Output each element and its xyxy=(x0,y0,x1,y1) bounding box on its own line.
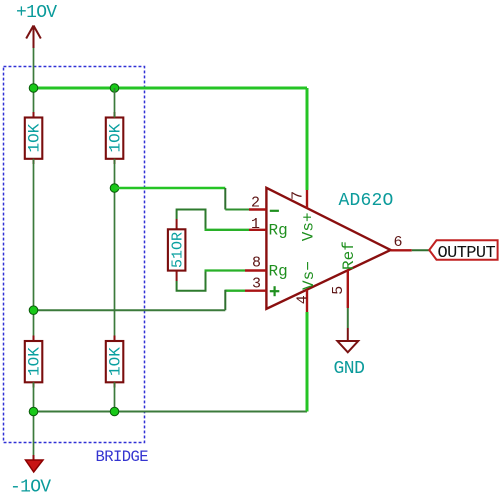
pin 8 stub xyxy=(245,269,266,271)
wire col2 top xyxy=(114,88,116,118)
wire R1 to mid junction xyxy=(33,159,35,341)
svg-text:3: 3 xyxy=(252,276,261,293)
pin 5 stub xyxy=(347,270,349,308)
svg-text:1: 1 xyxy=(251,216,260,233)
svg-text:4: 4 xyxy=(295,295,312,304)
pin 3 stub xyxy=(245,290,266,292)
wire Vs+ vertical xyxy=(306,88,309,190)
svg-text:1OK: 1OK xyxy=(107,123,125,152)
svg-text:51OR: 51OR xyxy=(170,232,187,268)
svg-text:+1OV: +1OV xyxy=(16,3,57,23)
wire pin2 step down xyxy=(224,188,226,210)
pin name minus xyxy=(270,210,279,212)
power flag -10V xyxy=(10,455,51,496)
wire pin6 to output xyxy=(412,249,429,251)
svg-text:8: 8 xyxy=(252,255,261,272)
power flag +10V xyxy=(16,3,57,48)
wire col2 bottom xyxy=(114,382,116,411)
pin 2 stub xyxy=(249,208,266,210)
pin 7 stub xyxy=(306,190,308,209)
svg-text:1OK: 1OK xyxy=(26,347,44,376)
svg-text:Vs−: Vs− xyxy=(300,261,318,290)
pin name plus xyxy=(270,290,280,292)
node junction bottom-left xyxy=(29,407,38,416)
pin 6 stub xyxy=(391,249,412,251)
svg-text:2: 2 xyxy=(251,195,260,212)
wire to pin2 horizontal xyxy=(115,187,226,190)
wire 510R top jog xyxy=(177,210,206,230)
svg-text:OUTPUT: OUTPUT xyxy=(438,244,496,263)
wire pin2 horizontal xyxy=(225,209,249,211)
node junction top-left xyxy=(29,84,38,93)
wire pin5 to GND xyxy=(347,308,349,328)
svg-text:Rg: Rg xyxy=(269,222,288,240)
resistor R2 10K (top-mid) xyxy=(106,112,125,164)
bridge box (dashed) xyxy=(4,67,145,443)
pin 4 stub xyxy=(306,290,308,312)
pin 1 stub xyxy=(249,229,266,231)
svg-text:1OK: 1OK xyxy=(26,123,44,152)
resistor R3 10K (bottom-left) xyxy=(25,336,44,388)
wire col1 bottom xyxy=(33,382,35,455)
node junction bottom-mid xyxy=(110,407,119,416)
svg-text:GND: GND xyxy=(334,359,365,379)
svg-text:6: 6 xyxy=(394,234,403,251)
wire bottom bus xyxy=(34,411,308,413)
svg-text:Rg: Rg xyxy=(269,262,288,280)
resistor R5 510R xyxy=(168,219,187,281)
svg-text:1OK: 1OK xyxy=(107,347,125,376)
resistor R1 10K (top-left) xyxy=(25,112,44,164)
svg-text:5: 5 xyxy=(330,286,347,295)
wire Vs- vertical xyxy=(306,312,309,412)
wire pin3 horizontal xyxy=(225,290,245,292)
ground xyxy=(334,328,365,379)
resistor R4 10K (bottom-mid) xyxy=(106,336,125,388)
svg-text:Vs+: Vs+ xyxy=(300,212,318,241)
svg-text:AD62O: AD62O xyxy=(339,191,394,211)
wire 510R bottom jog xyxy=(177,271,206,291)
wire mid-left bus xyxy=(34,309,226,311)
op-amp U1 AD620 xyxy=(245,188,412,312)
wire top bus xyxy=(34,87,308,90)
node junction top-mid xyxy=(110,84,119,93)
label OUTPUT flag xyxy=(429,240,497,263)
node junction col1 mid xyxy=(29,306,38,315)
wire col2 mid xyxy=(114,159,116,341)
svg-text:-1OV: -1OV xyxy=(10,478,51,496)
svg-text:Ref: Ref xyxy=(340,241,358,270)
node junction col2 mid xyxy=(110,184,119,193)
svg-text:BRIDGE: BRIDGE xyxy=(96,448,149,466)
svg-text:7: 7 xyxy=(289,191,306,200)
wire +10V down to bus xyxy=(33,48,35,118)
